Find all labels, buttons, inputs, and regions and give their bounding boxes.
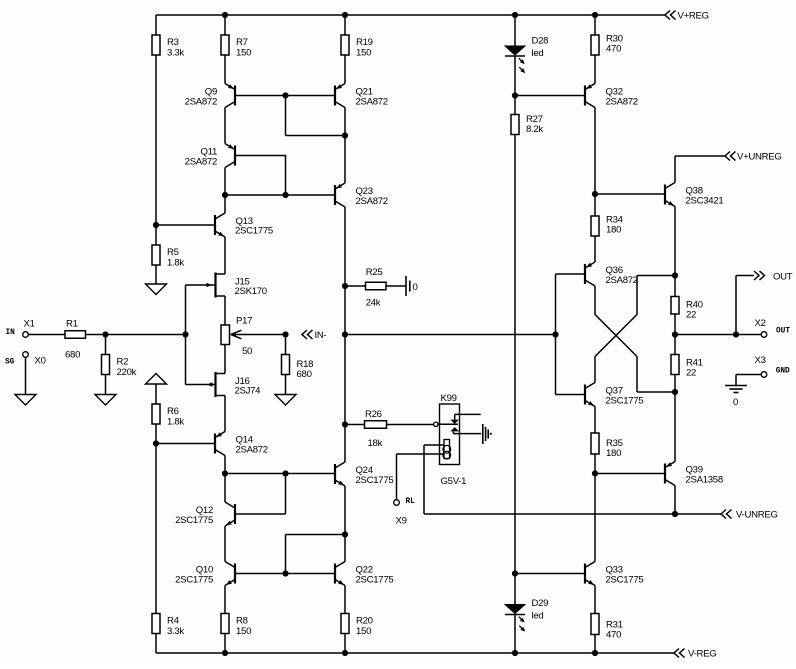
- wire top rail to D28: [514, 15, 516, 46]
- relay ground: [483, 424, 491, 444]
- net label IN-: [302, 330, 326, 341]
- node mirror bases Q9/Q21: [282, 92, 288, 98]
- svg-text:X3: X3: [755, 355, 766, 366]
- resistor R31: [591, 614, 623, 641]
- relay K99 box: [440, 393, 467, 487]
- wire R20 to rail: [344, 634, 346, 654]
- wire node down to R4: [155, 444, 157, 614]
- wire R8 to rail: [224, 634, 226, 654]
- svg-text:8.2k: 8.2k: [526, 124, 543, 135]
- earth ground 0: [725, 386, 747, 409]
- resistor R4: [152, 614, 184, 637]
- connector X3: [755, 355, 791, 377]
- wire X1 to R1: [28, 334, 65, 336]
- wire Q10 emitter to R8: [224, 586, 226, 614]
- transistor Q22 2SC1775: [335, 562, 393, 586]
- wire node to Q32 base: [515, 95, 586, 97]
- svg-text:2SA872: 2SA872: [356, 196, 388, 207]
- jfet J16 2SJ74: [207, 372, 261, 397]
- jfet J15 2SK170: [207, 273, 267, 298]
- svg-text:150: 150: [236, 626, 251, 637]
- resistor R19: [341, 35, 373, 58]
- svg-text:2SJ74: 2SJ74: [235, 386, 262, 397]
- svg-text:2SC1775: 2SC1775: [606, 395, 644, 406]
- resistor R30: [591, 34, 623, 56]
- wire OUT label: [736, 276, 754, 335]
- resistor R25: [366, 267, 387, 309]
- wire cross leg Q37 to Q38 emitter node: [595, 276, 675, 357]
- wire Q39 emitter: [674, 392, 676, 462]
- net stub 0 at R25: [406, 276, 418, 296]
- svg-text:D29: D29: [532, 598, 549, 609]
- ground below X0: [15, 395, 36, 406]
- wire R6 to Q14 base node: [155, 424, 157, 444]
- node R25 tap: [342, 283, 348, 289]
- wire R31 to rail: [594, 635, 596, 654]
- node Q23 base line: [282, 192, 288, 198]
- wire Q39 collector to V-UNREG: [674, 486, 676, 515]
- junction bottom rail at D29: [512, 650, 518, 656]
- ground below R2: [95, 395, 116, 406]
- svg-text:G5V-1: G5V-1: [441, 476, 467, 487]
- node Q38 emitter / R40: [672, 272, 678, 278]
- led D28: [505, 36, 548, 74]
- wire Q22 emitter to R20: [344, 586, 346, 614]
- svg-text:3.3k: 3.3k: [167, 47, 184, 58]
- node D29/Q33 base: [512, 570, 518, 576]
- svg-text:2SC1775: 2SC1775: [175, 515, 213, 526]
- ground arrow above R6: [146, 374, 167, 385]
- resistor R3: [152, 35, 184, 58]
- svg-text:V+UNREG: V+UNREG: [737, 152, 782, 163]
- relay contact NO: [450, 427, 481, 434]
- wire Q22 collector: [344, 535, 346, 562]
- wire Q23 collector down: [344, 207, 346, 286]
- wire Q24 emitter to Q22 collector node: [344, 486, 346, 535]
- connector X0: [23, 352, 46, 367]
- transistor Q12 2SC1775: [175, 502, 235, 526]
- wire D29 to rail: [514, 615, 516, 654]
- node Q14 collector / mirror in: [222, 470, 228, 476]
- wire node down to Q33 collector: [594, 474, 596, 562]
- wire Q10 base to Q22 base: [235, 573, 335, 575]
- wire node to Q39 base: [595, 473, 665, 475]
- relay input pin: [434, 422, 458, 426]
- resistor R1: [65, 319, 86, 361]
- wire top V+REG rail: [156, 14, 665, 16]
- wire mirror link vertical: [285, 96, 287, 136]
- wire R19 to Q21 emitter: [344, 55, 346, 84]
- resistor R6: [152, 404, 184, 427]
- svg-text:2SA872: 2SA872: [185, 96, 217, 107]
- svg-text:150: 150: [356, 626, 371, 637]
- wire R18 top: [285, 335, 287, 355]
- svg-text:P17: P17: [236, 316, 252, 327]
- wire driver bases column: [556, 274, 586, 395]
- transistor Q33 2SC1775: [585, 562, 643, 586]
- svg-text:X9: X9: [396, 516, 407, 527]
- node Q22 collector / diode: [342, 531, 348, 537]
- wire node to Q33 base: [515, 573, 585, 575]
- svg-text:24k: 24k: [366, 298, 381, 309]
- resistor R35: [591, 433, 623, 459]
- wire bottom V-REG rail: [156, 652, 674, 654]
- svg-text:RL: RL: [406, 498, 416, 506]
- junction top rail at R7: [222, 12, 228, 18]
- node Q32/R34/Q38 base: [592, 191, 598, 197]
- svg-text:led: led: [532, 611, 544, 622]
- wire R18 to ground: [285, 375, 287, 395]
- wire coil pin1 to V-UNREG: [424, 445, 444, 514]
- svg-text:470: 470: [606, 630, 621, 641]
- wire R27 down to Q33 base node: [514, 135, 516, 574]
- wire Q23 collector to IN- node: [344, 286, 346, 335]
- wire gnd to R6: [155, 384, 157, 404]
- resistor R40: [671, 297, 703, 321]
- wire Q22 diode link: [286, 535, 346, 574]
- wire Q24 collector: [344, 425, 346, 463]
- svg-text:2SK170: 2SK170: [235, 286, 267, 297]
- node OUT: [672, 331, 678, 337]
- wire Q12 collector: [224, 474, 226, 503]
- resistor R41: [671, 355, 703, 379]
- junction top rail at R30: [592, 12, 598, 18]
- svg-text:680: 680: [65, 350, 80, 361]
- relay coil: [443, 440, 451, 460]
- svg-text:22: 22: [686, 310, 696, 321]
- junction bottom rail at R8: [222, 650, 228, 656]
- net label V-UNREG: [721, 510, 778, 521]
- wire J15 source to P17: [224, 296, 226, 325]
- wire Q38 emitter to node: [674, 207, 676, 276]
- node P17 wiper / R18: [282, 331, 288, 337]
- node Q21 collector: [342, 132, 348, 138]
- svg-text:18k: 18k: [368, 438, 383, 449]
- wire coil pin2 to X9: [397, 454, 445, 500]
- resistor R8: [221, 614, 251, 637]
- wire Q38 collector to V+UNREG: [675, 156, 725, 183]
- svg-text:2SC1775: 2SC1775: [356, 574, 394, 585]
- svg-text:IN-: IN-: [315, 330, 327, 341]
- wire node to R40: [674, 276, 676, 297]
- svg-text:2SC3421: 2SC3421: [686, 195, 724, 206]
- svg-text:X0: X0: [35, 356, 46, 367]
- wire P17 to J16 drain: [224, 345, 226, 374]
- node R3/R5/Q13 base: [153, 222, 159, 228]
- potentiometer P17: [221, 316, 286, 358]
- transistor Q24 2SC1775: [335, 462, 393, 486]
- resistor R27: [511, 114, 543, 135]
- svg-text:2SC1775: 2SC1775: [175, 574, 213, 585]
- node Q39 collector on V-UNREG: [672, 511, 678, 517]
- wire Q21 collector: [344, 108, 346, 136]
- wire Q37 collector: [594, 357, 596, 383]
- connector X9 RL: [394, 498, 415, 527]
- transistor Q10 2SC1775: [175, 562, 235, 586]
- svg-text:180: 180: [606, 448, 621, 459]
- junction top rail at R19: [342, 12, 348, 18]
- svg-text:OUT: OUT: [776, 328, 790, 336]
- wire Q13 collector: [224, 195, 226, 213]
- wire R7 to Q9 emitter: [224, 55, 226, 84]
- wire R35 to node: [594, 454, 596, 474]
- transistor Q37 2SC1775: [585, 383, 643, 407]
- transistor Q14 2SA872: [215, 432, 268, 456]
- ground below R18: [275, 395, 296, 406]
- transistor Q21 2SA872: [335, 84, 388, 108]
- svg-text:0: 0: [733, 397, 738, 408]
- transistor Q38 2SC3421: [665, 183, 723, 207]
- junction top rail at D28: [512, 12, 518, 18]
- wire gate column J15-J16: [186, 285, 216, 385]
- wire Q14 collector to node: [224, 456, 226, 474]
- svg-text:V+REG: V+REG: [678, 11, 709, 22]
- resistor R18: [282, 355, 314, 381]
- wire Q13 emitter to J15 drain: [224, 237, 226, 274]
- node R2 tap: [102, 331, 108, 337]
- wire R40 to OUT node: [674, 314, 676, 335]
- wire D28 to node: [514, 56, 516, 96]
- net label V+REG: [665, 11, 709, 22]
- node Q10/Q22 bases: [282, 570, 288, 576]
- wire Q33 emitter to R31: [594, 586, 596, 614]
- wire node to Q24 base: [225, 473, 335, 475]
- svg-text:IN: IN: [6, 329, 16, 337]
- wire Q9 collector to Q11 emitter: [224, 108, 226, 144]
- transistor Q23 2SA872: [335, 183, 388, 207]
- ground below R5: [146, 284, 167, 295]
- wire node to Q13 base: [156, 224, 216, 226]
- wire Q9 base to Q21 base: [235, 95, 335, 97]
- resistor R20: [341, 614, 373, 637]
- wire R5 to ground: [155, 265, 157, 284]
- svg-text:R26: R26: [365, 409, 382, 420]
- wire Q12 emitter to Q10 collector: [224, 526, 226, 562]
- wire Q11 collector to node: [224, 168, 226, 196]
- wire mirror link horizontal: [286, 135, 346, 137]
- svg-text:2SC1775: 2SC1775: [606, 574, 644, 585]
- wire OUT node to R41: [674, 335, 676, 355]
- net label V+UNREG: [725, 152, 782, 163]
- wire R1 to input node: [86, 334, 186, 336]
- transistor Q32 2SA872: [585, 84, 638, 108]
- svg-text:GND: GND: [776, 368, 790, 376]
- wire Q12 base link: [235, 474, 286, 515]
- wire R7 top: [224, 15, 226, 35]
- wire collector node to Q23 base: [225, 194, 335, 196]
- svg-text:3.3k: 3.3k: [167, 626, 184, 637]
- svg-text:2SA872: 2SA872: [236, 444, 268, 455]
- node Q14 base / R4: [153, 440, 159, 446]
- resistor R7: [221, 35, 251, 58]
- svg-text:2SA872: 2SA872: [606, 96, 638, 107]
- transistor Q11 2SA872: [185, 144, 235, 168]
- svg-text:2SC1775: 2SC1775: [235, 225, 273, 236]
- led D29: [505, 598, 548, 632]
- svg-text:680: 680: [297, 369, 312, 380]
- transistor Q36 2SA872: [585, 262, 638, 286]
- wire down to R26 node: [344, 335, 346, 425]
- wire Q37 emitter to R35: [594, 407, 596, 434]
- net label OUT: [754, 271, 793, 283]
- wire R3 top: [155, 15, 157, 35]
- svg-text:led: led: [532, 48, 544, 59]
- resistor R26: [365, 409, 387, 449]
- node IN- line left: [342, 331, 348, 337]
- transistor Q9 2SA872: [185, 84, 235, 108]
- wire R3 to node: [155, 55, 157, 225]
- svg-text:1.8k: 1.8k: [167, 257, 184, 268]
- wire X3 to earth: [736, 375, 762, 386]
- wire R30 to Q32 emitter: [594, 55, 596, 84]
- resistor R5: [152, 245, 184, 268]
- svg-text:150: 150: [356, 47, 371, 58]
- node driver bases: [552, 331, 558, 337]
- wire R2 top: [105, 335, 107, 355]
- svg-text:2SA872: 2SA872: [606, 275, 638, 286]
- transistor Q39 2SA1358: [665, 462, 723, 486]
- connector X2: [755, 318, 791, 337]
- net label V-REG: [674, 649, 716, 660]
- node D28/R27/Q32 base: [512, 92, 518, 98]
- svg-text:2SA872: 2SA872: [185, 156, 217, 167]
- svg-text:K99: K99: [441, 393, 457, 404]
- wire node to R27: [514, 96, 516, 115]
- svg-text:50: 50: [242, 346, 252, 357]
- resistor R2: [102, 355, 137, 378]
- junction bottom rail at R20: [342, 650, 348, 656]
- node R26 / Q24 collector: [342, 421, 348, 427]
- wire R30 top: [594, 15, 596, 35]
- wire R19 top: [344, 15, 346, 35]
- wire Q11 base: [235, 156, 286, 196]
- svg-text:V-REG: V-REG: [688, 649, 716, 660]
- svg-text:22: 22: [686, 368, 696, 379]
- node input at gate column: [182, 331, 188, 337]
- wire OUT node to X2: [675, 334, 762, 336]
- resistor R34: [591, 215, 624, 237]
- wire IN- node to driver bases: [345, 334, 556, 336]
- node R41 / Q39 emitter: [672, 389, 678, 395]
- node Q11/Q13 collectors: [222, 192, 228, 198]
- wire R4 to rail: [155, 634, 157, 654]
- wire Q14 base: [156, 443, 216, 445]
- wire R26 to relay pin: [387, 424, 434, 426]
- svg-text:2SA872: 2SA872: [356, 96, 388, 107]
- svg-text:2SC1775: 2SC1775: [356, 475, 394, 486]
- svg-text:220k: 220k: [117, 367, 137, 378]
- svg-text:180: 180: [606, 225, 621, 236]
- svg-text:0: 0: [413, 282, 418, 293]
- svg-text:D28: D28: [532, 36, 549, 47]
- wire cross leg Q36 to Q39 emitter node: [595, 315, 675, 393]
- svg-text:470: 470: [606, 44, 621, 55]
- wire node to R25: [345, 285, 366, 287]
- wire R41 to node: [674, 375, 676, 393]
- svg-text:OUT: OUT: [773, 272, 793, 283]
- wire Q36 collector: [594, 286, 596, 315]
- svg-text:1.8k: 1.8k: [167, 416, 184, 427]
- wire J16 source to Q14 emitter: [224, 396, 226, 432]
- wire V-UNREG rail: [424, 513, 721, 515]
- svg-text:SG: SG: [5, 359, 15, 367]
- node R35/Q39 base: [592, 470, 598, 476]
- svg-text:X1: X1: [24, 319, 35, 330]
- wire node to D29: [514, 574, 516, 605]
- connector X1: [23, 319, 35, 338]
- svg-text:R1: R1: [66, 319, 78, 330]
- transistor Q13 2SC1775: [215, 213, 273, 237]
- node Q12 base branch: [282, 470, 288, 476]
- svg-text:150: 150: [236, 47, 251, 58]
- wire Q21 collector node to Q23 emitter: [344, 136, 346, 184]
- relay contact NC: [450, 414, 480, 424]
- wire node to R34: [594, 194, 596, 216]
- wire node to R26: [345, 424, 365, 426]
- svg-text:X2: X2: [755, 318, 766, 329]
- junction bottom rail at R31: [592, 650, 598, 656]
- wire R2 to ground: [105, 375, 107, 395]
- svg-text:R25: R25: [366, 267, 383, 278]
- wire R25 to 0 stub: [386, 285, 406, 287]
- wire R34 to Q36 emitter: [594, 236, 596, 262]
- wire node to Q38 base: [595, 193, 665, 195]
- svg-text:2SA1358: 2SA1358: [686, 474, 723, 485]
- wire node to R5: [155, 225, 157, 245]
- wire X0 to ground: [25, 357, 27, 394]
- wire Q32 collector to node: [594, 108, 596, 195]
- node OUT label tap: [733, 331, 739, 337]
- svg-text:V-UNREG: V-UNREG: [736, 510, 778, 521]
